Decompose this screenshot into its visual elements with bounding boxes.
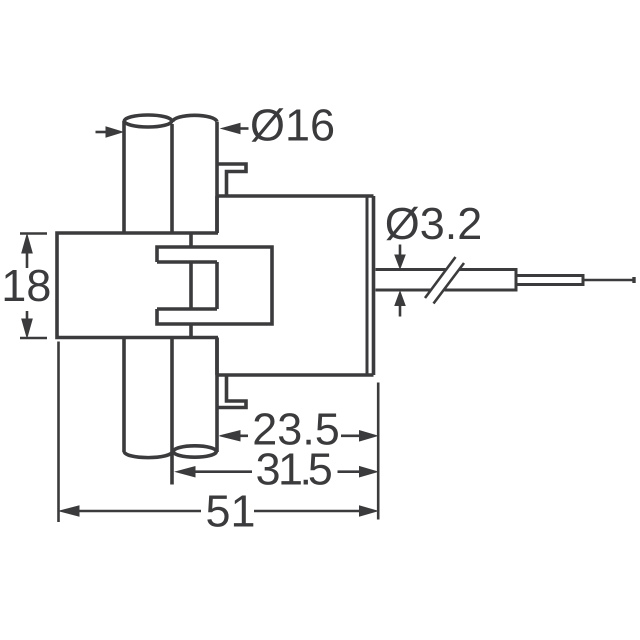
- dim 23.5 line: [238, 434, 360, 437]
- dim Ø3.2 down arrow: [399, 245, 402, 258]
- dim 18 up arrow: [26, 252, 29, 268]
- tube bottom break loop: [173, 446, 216, 457]
- top hook tab: [217, 164, 246, 196]
- extension line right: [377, 383, 380, 520]
- clip inner vertical right: [215, 262, 219, 309]
- dim 31.5 line: [194, 470, 360, 473]
- body right outer edge: [372, 196, 376, 375]
- dim 51 right arrow: [360, 506, 378, 516]
- body top line: [219, 194, 374, 198]
- clip inner vertical left: [189, 262, 193, 309]
- dim 18 down arrow: [26, 311, 29, 321]
- tube right edge: [215, 122, 219, 452]
- body left edge segments: [215, 196, 219, 375]
- dim 31.5 right arrow: [360, 467, 378, 477]
- tube centerline: [170, 124, 174, 485]
- body right inner line: [366, 196, 369, 375]
- tube left edge: [122, 121, 126, 452]
- dim 23.5 left arrow: [220, 431, 241, 441]
- label Ø16: [252, 108, 334, 141]
- clip notch top: [157, 260, 217, 264]
- tube top break loop: [124, 115, 171, 127]
- dim 23.5 right arrow: [360, 431, 378, 441]
- label 18: [5, 270, 50, 302]
- thin lead wire: [583, 279, 633, 282]
- label 51: [207, 496, 253, 527]
- dim 18 top tick: [20, 232, 47, 235]
- clip notch bottom: [157, 307, 217, 311]
- cable outline: [376, 268, 517, 292]
- label Ø3.2: [386, 207, 480, 240]
- lead wire end tick: [632, 277, 635, 283]
- clip connector bottom: [189, 324, 193, 338]
- tube top break arc: [172, 115, 217, 122]
- cable mid section: [516, 276, 583, 285]
- bracket: [57, 233, 218, 338]
- body bottom line: [218, 373, 374, 377]
- cable break slash 1: [425, 257, 456, 298]
- label 23.5: [255, 413, 338, 445]
- bottom hook tab: [217, 375, 246, 408]
- dim 18 bottom tick: [20, 337, 47, 340]
- extension line left: [57, 342, 60, 523]
- clip fork outline: [157, 247, 272, 324]
- dim 51 left arrow: [60, 506, 80, 516]
- dim 31.5 left arrow: [176, 467, 195, 477]
- dim Ø16 right arrow: [238, 127, 249, 130]
- dim Ø16 left arrow: [96, 131, 108, 134]
- dim 51 line: [77, 510, 360, 513]
- cable break slash 2: [434, 263, 465, 304]
- dim Ø3.2 up arrow: [399, 304, 402, 317]
- clip connector top: [189, 233, 193, 247]
- tube bottom break arc: [124, 452, 172, 458]
- label 31.5: [257, 453, 331, 485]
